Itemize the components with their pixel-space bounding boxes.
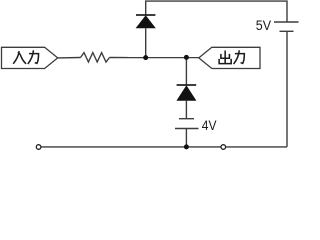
svg-text:4V: 4V (202, 117, 217, 133)
svg-text:5V: 5V (256, 17, 272, 33)
